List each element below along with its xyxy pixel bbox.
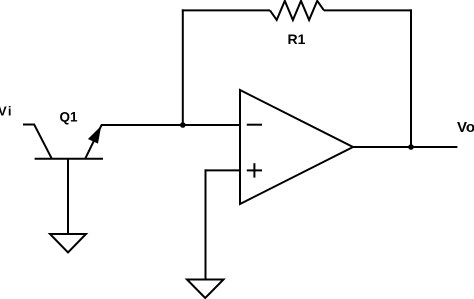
transistor Q1 emitter lead (diagonal with arrow) [85,125,101,159]
wire non-inverting input [205,169,241,171]
svg-text:Vo: Vo [457,119,474,136]
node output junction dot [408,144,414,150]
transistor Q1 emitter arrowhead [89,127,101,142]
wire output [353,146,457,148]
wire Vi lead [23,124,35,126]
wire feedback right vertical [410,9,412,147]
wire top left to resistor [182,9,270,11]
svg-text:R1: R1 [288,31,306,47]
resistor R1 [270,1,324,20]
wire resistor to top right [324,9,412,11]
wire down to ground 2 [205,169,207,279]
transistor Q1 base lead down [67,159,69,234]
transistor Q1 collector lead (diagonal from Vi) [34,124,52,159]
wire emitter to inverting input [101,124,240,126]
ground (below Q1) [50,234,86,253]
op-amp inverting input minus sign [247,124,262,126]
svg-text:Vi: Vi [0,104,13,119]
ground (below non-inverting input) [187,280,224,299]
op-amp non-inverting input plus sign [247,163,262,177]
op-amp U1 body [240,90,353,204]
wire feedback left vertical [182,9,184,125]
node junction dot (feedback tap) [180,122,186,128]
svg-text:Q1: Q1 [60,109,79,124]
transistor Q1 base bar [35,158,103,160]
